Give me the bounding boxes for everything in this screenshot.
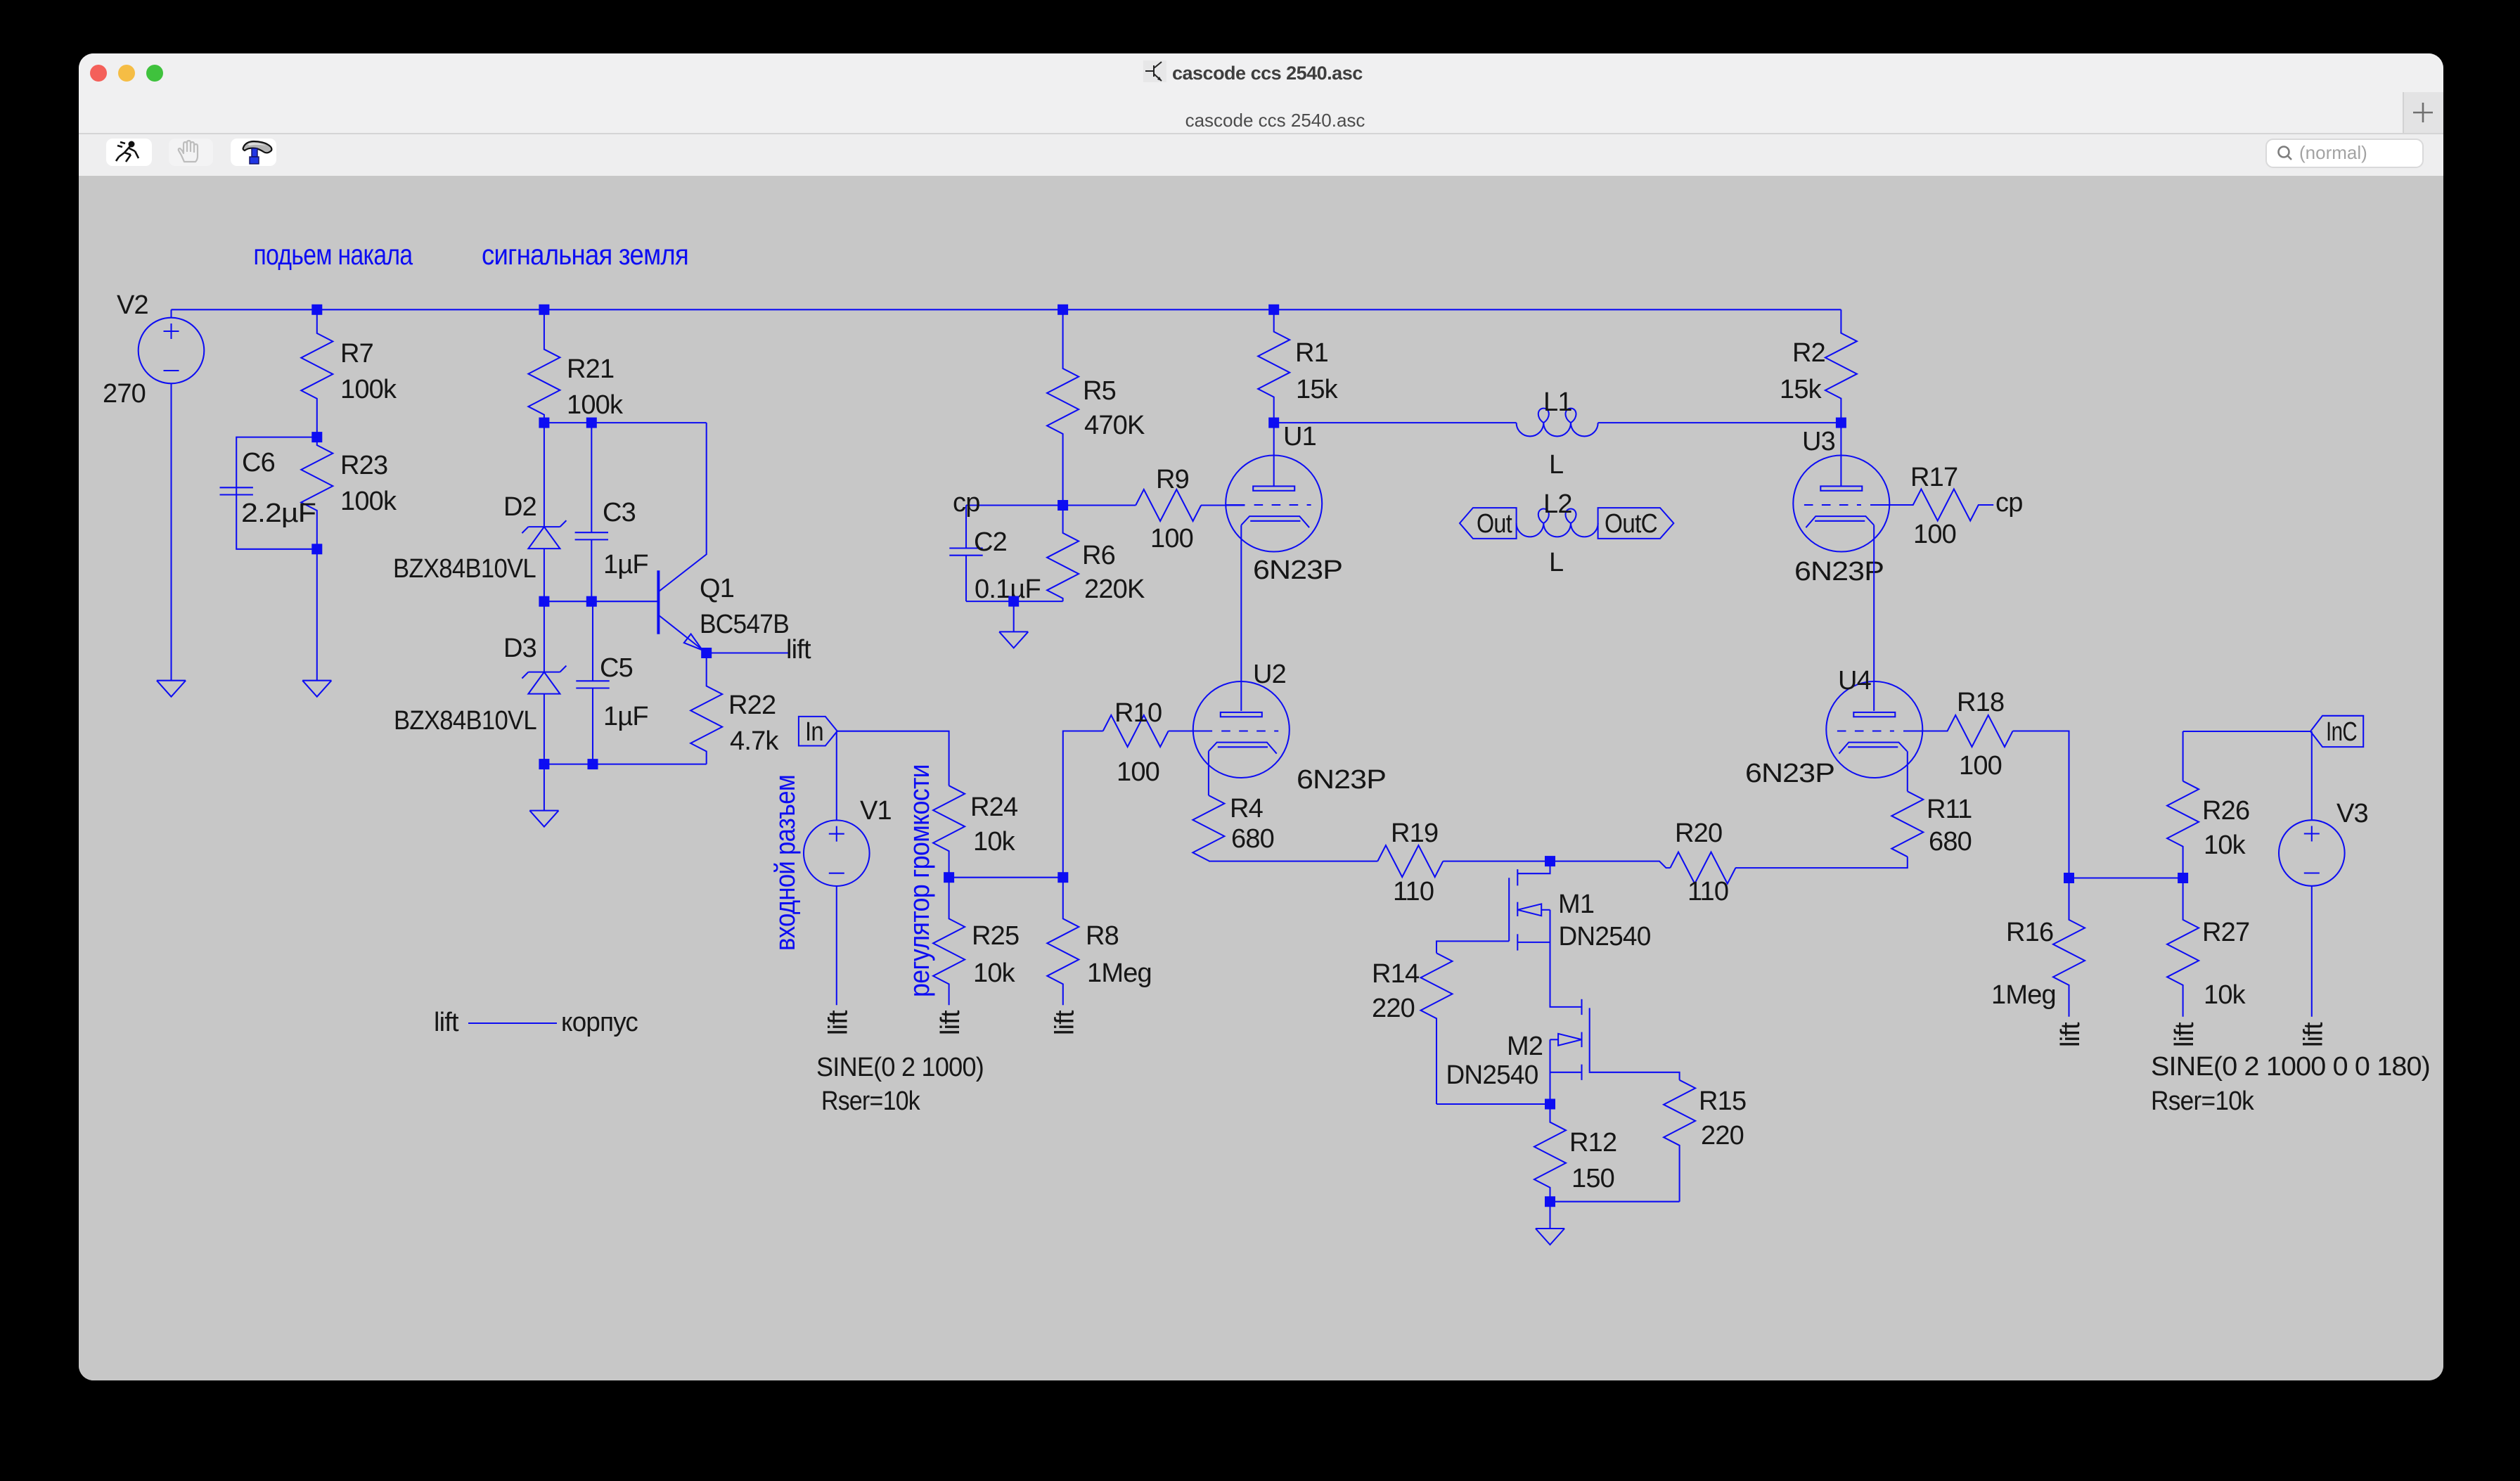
label R10: [1114, 698, 1162, 728]
svg-text:lift: lift: [823, 1010, 853, 1035]
node rail-R7 junction: [311, 304, 322, 315]
window title with app icon: [1133, 58, 1485, 89]
net label cp: [953, 488, 980, 518]
wire U2 cathode to R4: [1208, 751, 1209, 795]
svg-text:cascode ccs 2540.asc: cascode ccs 2540.asc: [1172, 63, 1363, 84]
svg-text:M2: M2: [1507, 1032, 1543, 1061]
resistor R6: [1047, 506, 1079, 602]
svg-text:(normal): (normal): [2299, 142, 2367, 163]
wire R18 to corner: [2013, 731, 2069, 878]
label C3: [603, 498, 636, 527]
node D2-D3 junction: [539, 596, 549, 607]
wire L1 to R2 junction: [1598, 422, 1841, 423]
traffic light zoom: [146, 65, 163, 82]
svg-text:1Meg: 1Meg: [1087, 959, 1152, 988]
wire M1 gate to R14: [1436, 941, 1509, 953]
wire R17 to cp: [1979, 504, 1993, 506]
svg-text:10k: 10k: [2204, 831, 2246, 860]
svg-text:R16: R16: [2006, 918, 2053, 947]
label U2 value 6N23P: [1297, 765, 1386, 795]
node R1 bottom junction: [1268, 418, 1279, 428]
voltage source V2: [139, 318, 205, 384]
svg-text:R26: R26: [2202, 796, 2249, 826]
svg-text:lift: lift: [1050, 1010, 1079, 1035]
label C5: [600, 653, 633, 683]
label R12 value 150: [1571, 1164, 1614, 1193]
wire R10 to U2 grid: [1169, 730, 1212, 731]
svg-text:L: L: [1549, 450, 1563, 480]
svg-text:C6: C6: [242, 448, 275, 477]
mosfet M1 DN2540: [1509, 861, 1581, 1007]
wire C2-R6 bottom row: [966, 601, 1063, 602]
label R8 value 1Meg: [1087, 959, 1152, 988]
label V2: [117, 290, 148, 320]
label D2 value BZX84B10VL: [393, 554, 536, 584]
svg-text:100: 100: [1150, 524, 1193, 553]
svg-text:R21: R21: [567, 354, 614, 384]
svg-text:220: 220: [1701, 1121, 1744, 1150]
node R16 junction: [2064, 873, 2074, 883]
wire InC to V3: [2311, 731, 2313, 819]
transistor Q1 BC547B: [658, 423, 706, 653]
svg-text:lift: lift: [434, 1008, 459, 1037]
label U4 value 6N23P: [1745, 759, 1834, 788]
wire R12-R15 bottom row: [1550, 1201, 1680, 1203]
ground below zener chain: [529, 811, 558, 827]
svg-text:10k: 10k: [973, 959, 1016, 988]
net label lift left: [434, 1008, 459, 1037]
net label lift under V3: [2299, 1022, 2328, 1047]
label V2 value 270: [103, 379, 146, 409]
net label lift under R8: [1050, 1010, 1079, 1035]
label R18 value 100: [1959, 751, 2002, 781]
node rail-R5 junction: [1057, 304, 1068, 315]
svg-text:R5: R5: [1083, 376, 1116, 406]
svg-text:R6: R6: [1082, 541, 1115, 570]
net label lift under R27: [2170, 1022, 2199, 1047]
label Q1: [700, 574, 734, 603]
label R26 value 10k: [2204, 831, 2246, 860]
wire InC row: [2183, 731, 2310, 732]
resistor R23: [301, 437, 333, 549]
wire R20 to R11: [1735, 857, 1908, 868]
svg-text:BZX84B10VL: BZX84B10VL: [393, 554, 536, 584]
label L2: [1543, 489, 1572, 519]
label R27: [2202, 918, 2249, 947]
svg-text:R2: R2: [1792, 338, 1825, 368]
label R22: [728, 691, 776, 720]
svg-text:R9: R9: [1156, 465, 1189, 494]
svg-text:R18: R18: [1957, 688, 2004, 717]
resistor R4: [1192, 795, 1224, 861]
label R10 value 100: [1117, 757, 1159, 787]
svg-text:R22: R22: [728, 691, 776, 720]
svg-text:1Meg: 1Meg: [1991, 980, 2056, 1010]
wire R26 top: [2182, 731, 2184, 781]
resistor R14: [1421, 953, 1453, 1104]
svg-text:15k: 15k: [1296, 375, 1339, 404]
svg-text:C5: C5: [600, 653, 633, 683]
capacitor C5: [576, 601, 609, 764]
wire top supply rail: [172, 309, 1841, 310]
wire U1 anode: [1273, 423, 1275, 486]
svg-text:InC: InC: [2326, 717, 2357, 747]
wire R10 left vertical: [1063, 731, 1103, 878]
capacitor C6: [220, 487, 253, 494]
label R25 value 10k: [973, 959, 1016, 988]
node M1 drain junction: [1545, 856, 1555, 866]
resistor R26: [2167, 781, 2199, 878]
label R20 value 110: [1687, 877, 1728, 906]
label U1 value 6N23P: [1253, 556, 1342, 585]
svg-text:SINE(0 2 1000 0 0 180): SINE(0 2 1000 0 0 180): [2151, 1052, 2430, 1082]
svg-text:входной разъем: входной разъем: [770, 775, 801, 951]
spice directive Rser V3: [2151, 1086, 2255, 1116]
wire C6 top: [236, 437, 317, 488]
svg-text:470K: 470K: [1084, 411, 1145, 440]
svg-text:R15: R15: [1699, 1086, 1746, 1116]
comment vhodnoy razyem: [770, 775, 801, 951]
label R27 value 10k: [2204, 980, 2246, 1010]
label V1: [860, 796, 892, 826]
triode U3 6N23P: [1793, 456, 1889, 552]
label U3 value 6N23P: [1794, 557, 1884, 586]
svg-text:R17: R17: [1910, 463, 1957, 492]
label R9 value 100: [1150, 524, 1193, 553]
net label In: [805, 717, 823, 747]
svg-text:U1: U1: [1283, 422, 1316, 451]
svg-text:L: L: [1549, 548, 1563, 577]
net flag In: [799, 717, 837, 746]
traffic light close: [90, 65, 107, 82]
svg-text:1µF: 1µF: [603, 702, 648, 731]
resistor R24: [933, 786, 965, 878]
resistor R1: [1258, 309, 1290, 423]
label C6 value 2.2uF: [241, 499, 316, 528]
toolbar run button: [106, 139, 152, 166]
svg-text:100k: 100k: [340, 487, 397, 516]
inductor L1: [1517, 409, 1598, 437]
svg-text:220: 220: [1372, 994, 1415, 1023]
label R22 value 4.7k: [730, 726, 779, 756]
label R17: [1910, 463, 1957, 492]
node M2 source junction: [1545, 1099, 1555, 1110]
resistor R8: [1047, 878, 1079, 1006]
svg-text:cp: cp: [1995, 488, 2023, 518]
svg-text:150: 150: [1571, 1164, 1614, 1193]
label Q1 value BC547B: [700, 610, 789, 639]
voltage source V3: [2279, 820, 2345, 886]
label R24: [970, 793, 1018, 822]
svg-text:100: 100: [1959, 751, 2002, 781]
svg-text:Out: Out: [1477, 509, 1512, 539]
svg-text:BC547B: BC547B: [700, 610, 789, 639]
resistor R9: [1136, 489, 1201, 521]
spice directive SINE V3: [2151, 1052, 2430, 1082]
svg-text:10k: 10k: [2204, 980, 2246, 1010]
wire R4 to R19: [1209, 861, 1377, 862]
wire R19 to M1 node: [1443, 861, 1550, 862]
spice directive SINE V1: [816, 1053, 984, 1082]
wire U3 anode: [1840, 423, 1841, 486]
node R24-R25 junction: [944, 872, 954, 883]
wire V2 top lead: [170, 309, 172, 318]
traffic light minimize: [118, 65, 135, 82]
resistor R2: [1825, 332, 1857, 423]
svg-text:Rser=10k: Rser=10k: [2151, 1086, 2255, 1116]
node Q1 emitter junction: [701, 648, 712, 658]
wire D2 top lead: [544, 423, 545, 527]
svg-text:BZX84B10VL: BZX84B10VL: [394, 706, 536, 736]
node R12 bottom junction: [1545, 1196, 1555, 1207]
net label lift under R16: [2056, 1022, 2085, 1047]
label R1: [1295, 338, 1328, 368]
svg-text:L2: L2: [1543, 489, 1572, 519]
label D3 value BZX84B10VL: [394, 706, 536, 736]
label L1: [1543, 387, 1572, 417]
label R6: [1082, 541, 1115, 570]
zener diode D3: [522, 666, 566, 694]
label V3: [2336, 799, 2368, 828]
label R21: [567, 354, 614, 384]
resistor R18: [1922, 715, 2012, 747]
label U4: [1838, 666, 1872, 695]
svg-text:100: 100: [1117, 757, 1159, 787]
svg-text:R25: R25: [972, 921, 1019, 951]
svg-text:C2: C2: [974, 527, 1007, 557]
svg-text:M1: M1: [1558, 890, 1594, 919]
node R21 bottom junction: [539, 418, 549, 428]
label M1 value DN2540: [1559, 922, 1651, 951]
label R23 value 100k: [340, 487, 397, 516]
wire R16 row: [2069, 877, 2183, 878]
node R7-R23-C6 junction: [311, 432, 322, 442]
label R11: [1927, 795, 1972, 824]
svg-text:L1: L1: [1543, 387, 1572, 417]
ground below R23: [302, 681, 331, 697]
svg-text:D3: D3: [503, 634, 536, 663]
svg-text:D2: D2: [503, 492, 536, 522]
label R6 value 220K: [1084, 575, 1145, 604]
wire rail corner down to R2: [1840, 309, 1841, 333]
label D3: [503, 634, 536, 663]
wire to ground stub: [544, 764, 545, 811]
svg-text:DN2540: DN2540: [1446, 1060, 1538, 1090]
net label OutC: [1605, 509, 1657, 539]
svg-text:R11: R11: [1927, 795, 1972, 824]
wire M2 gate to R15: [1590, 1071, 1680, 1080]
wire R14 bottom to M2 source: [1436, 1103, 1550, 1105]
node cp junction: [1057, 500, 1068, 511]
resistor R15: [1664, 1080, 1695, 1202]
label R14 value 220: [1372, 994, 1415, 1023]
resistor R21: [528, 309, 560, 423]
net label cp right: [1995, 488, 2023, 518]
node R26-R27 junction: [2178, 873, 2188, 883]
wire U1 cathode to U2 anode: [1240, 525, 1242, 711]
label M1: [1558, 890, 1594, 919]
triode U1 6N23P: [1226, 456, 1322, 552]
node D3 bottom junction: [539, 759, 549, 769]
svg-text:R23: R23: [340, 451, 387, 480]
net label lift at Q1 emitter: [786, 635, 811, 665]
plus tab: [2403, 92, 2443, 133]
svg-text:U3: U3: [1802, 427, 1835, 456]
svg-text:6N23P: 6N23P: [1297, 765, 1386, 795]
wire lift-korpus: [468, 1022, 557, 1024]
svg-text:4.7k: 4.7k: [730, 726, 779, 756]
capacitor C2: [949, 506, 982, 602]
wire bottom row to R22: [544, 764, 707, 765]
wire R1 junction to L1: [1274, 422, 1517, 423]
wire R23 to ground: [316, 549, 318, 681]
net flag OutC: [1598, 508, 1674, 539]
label R1 value 15k: [1296, 375, 1339, 404]
label R21 value 100k: [567, 390, 624, 420]
svg-text:lift: lift: [936, 1010, 965, 1035]
svg-text:C3: C3: [603, 498, 636, 527]
svg-text:100k: 100k: [567, 390, 624, 420]
label R2 value 15k: [1780, 375, 1822, 404]
zener diode D2: [522, 520, 566, 549]
svg-text:регулятор громкости: регулятор громкости: [904, 764, 935, 997]
wire M1 node to R20: [1550, 861, 1671, 868]
svg-text:Rser=10k: Rser=10k: [821, 1086, 921, 1116]
label R20: [1675, 819, 1722, 848]
svg-text:R20: R20: [1675, 819, 1722, 848]
label R18: [1957, 688, 2004, 717]
label R24 value 10k: [973, 827, 1016, 857]
ground below V2: [157, 681, 186, 697]
resistor R12: [1534, 1104, 1566, 1202]
label R4: [1230, 794, 1264, 823]
svg-text:R4: R4: [1230, 794, 1264, 823]
label U3: [1802, 427, 1835, 456]
label C2 value 0.1uF: [975, 575, 1041, 604]
wire Q1 emitter to lift: [707, 652, 789, 653]
node C5 bottom junction: [588, 759, 598, 769]
node R2 bottom junction: [1836, 418, 1846, 428]
svg-text:2.2µF: 2.2µF: [241, 499, 316, 528]
wire U4 cathode to R11: [1907, 751, 1908, 791]
wire cp row: [966, 504, 1136, 506]
resistor R22: [690, 653, 722, 764]
title icon transistor: [1143, 60, 1166, 82]
label R19: [1391, 819, 1438, 848]
resistor R16: [2053, 878, 2085, 1017]
resistor R20: [1670, 852, 1735, 884]
svg-text:lift: lift: [2056, 1022, 2085, 1047]
wire V3 bottom: [2311, 886, 2313, 1017]
svg-text:lift: lift: [786, 635, 811, 665]
comment regulyator gromkosti: [904, 764, 935, 997]
node rail-R1 junction: [1268, 304, 1279, 315]
node R23-C6 bottom junction: [311, 544, 322, 554]
resistor R19: [1377, 845, 1443, 877]
label R7: [340, 339, 373, 368]
node rail-R21 junction: [539, 304, 549, 315]
label R16 value 1Meg: [1991, 980, 2056, 1010]
label U2: [1253, 660, 1286, 689]
svg-text:lift: lift: [2299, 1022, 2328, 1047]
wire U3 cathode to U4 anode: [1873, 525, 1875, 711]
label U1: [1283, 422, 1316, 451]
svg-text:220K: 220K: [1084, 575, 1145, 604]
svg-text:110: 110: [1393, 877, 1434, 906]
svg-text:R8: R8: [1086, 921, 1119, 951]
label R14: [1372, 959, 1420, 989]
label R26: [2202, 796, 2249, 826]
resistor R25: [933, 878, 965, 1006]
label D2: [503, 492, 536, 522]
wire C6 bottom: [236, 495, 317, 549]
toolbar pan button (disabled): [169, 139, 213, 166]
svg-text:DN2540: DN2540: [1559, 922, 1651, 951]
label R15: [1699, 1086, 1746, 1116]
resistor R10: [1103, 715, 1169, 747]
comment signalnaya zemlya: [482, 238, 688, 271]
label R5: [1083, 376, 1116, 406]
svg-text:корпус: корпус: [561, 1008, 638, 1037]
wire base row to Q1: [544, 601, 659, 602]
label C3 value 1uF: [603, 550, 648, 579]
svg-text:V2: V2: [117, 290, 148, 320]
label R9: [1156, 465, 1189, 494]
resistor R5: [1047, 309, 1079, 505]
wire R9 to U1 grid: [1201, 504, 1245, 506]
svg-text:6N23P: 6N23P: [1794, 557, 1884, 586]
triode U4 6N23P: [1826, 681, 1922, 778]
net label korpus: [561, 1008, 638, 1037]
node C3-C5 junction: [586, 596, 597, 607]
resistor R11: [1891, 791, 1923, 857]
svg-text:R27: R27: [2202, 918, 2249, 947]
resistor R7: [301, 309, 333, 437]
svg-text:сигнальная земля: сигнальная земля: [482, 238, 688, 271]
svg-text:R24: R24: [970, 793, 1018, 822]
net flag InC: [2310, 716, 2363, 747]
wire ground stub M: [1549, 1202, 1550, 1229]
resistor R27: [2167, 878, 2199, 1017]
label R5 value 470K: [1084, 411, 1145, 440]
wire ground stub C2R6: [1013, 601, 1015, 631]
svg-text:lift: lift: [2170, 1022, 2199, 1047]
node C2-R6 ground junction: [1008, 596, 1019, 607]
label C5 value 1uF: [603, 702, 648, 731]
label C6: [242, 448, 275, 477]
label R19 value 110: [1393, 877, 1434, 906]
label R23: [340, 451, 387, 480]
svg-text:OutC: OutC: [1605, 509, 1657, 539]
ground below C2-R6: [999, 631, 1028, 648]
net label lift under V1: [823, 1010, 853, 1035]
node R8 junction: [1057, 872, 1068, 883]
wire D3 bottom lead: [544, 694, 545, 764]
svg-text:R7: R7: [340, 339, 373, 368]
svg-text:680: 680: [1231, 824, 1274, 854]
svg-text:V1: V1: [860, 796, 892, 826]
svg-text:R14: R14: [1372, 959, 1420, 989]
svg-text:10k: 10k: [973, 827, 1016, 857]
wire R21 bottom row to Q1 collector: [544, 422, 707, 423]
label R25: [972, 921, 1019, 951]
net label Out: [1477, 509, 1512, 539]
svg-text:0.1µF: 0.1µF: [975, 575, 1041, 604]
svg-text:V3: V3: [2336, 799, 2368, 828]
wire D3 top lead: [544, 601, 545, 672]
label L1 value L: [1549, 450, 1563, 480]
label L2 value L: [1549, 548, 1563, 577]
